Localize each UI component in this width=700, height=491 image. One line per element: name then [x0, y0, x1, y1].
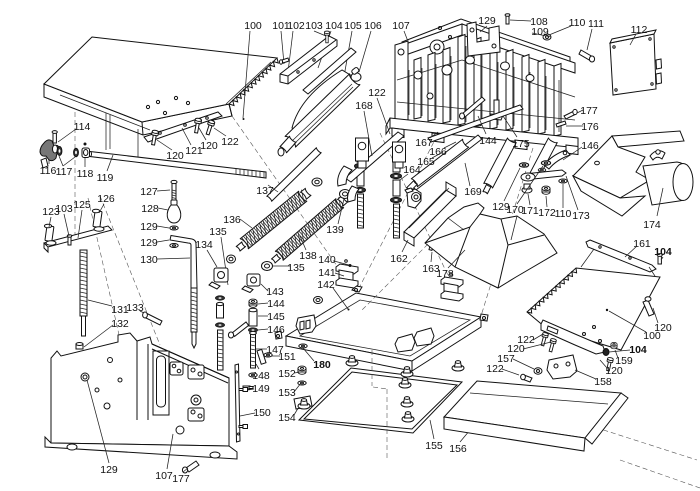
stud column 164 [393, 162, 400, 172]
screw 149b [243, 425, 248, 429]
pad stack at 407,398 [401, 401, 413, 407]
small parts above base [249, 373, 257, 377]
svg-text:150: 150 [253, 407, 271, 419]
washer 129c [519, 163, 528, 167]
svg-text:120: 120 [200, 140, 218, 152]
bolt 120 right [193, 118, 202, 134]
washer 139 [340, 190, 351, 199]
bolt 176 [556, 121, 566, 127]
curved guard behind roller [292, 70, 352, 134]
roller 169b [484, 138, 517, 189]
bolt 122 [205, 119, 216, 135]
pad stack at 304,400 [298, 403, 310, 409]
curved plates near 139 [338, 166, 352, 186]
motor bracket + motor 174 [612, 131, 684, 147]
infeed table 100 [44, 84, 232, 135]
svg-text:136: 136 [223, 214, 241, 226]
bracket bar 125 [44, 226, 112, 247]
svg-text:106: 106 [364, 20, 382, 32]
feet [67, 444, 77, 450]
slide rail 167 [428, 105, 523, 142]
bolt 177 bottom [186, 461, 199, 472]
cutterblock frame 107 [402, 19, 570, 64]
washer 135a [262, 262, 273, 271]
bar 161 [586, 240, 656, 272]
carriage plate 142 [286, 293, 481, 361]
screw 149a [243, 388, 248, 392]
svg-text:176: 176 [581, 121, 599, 133]
wire dash line right bottom phantom [588, 425, 700, 488]
roller 169a [411, 139, 469, 187]
svg-text:142: 142 [317, 279, 335, 291]
svg-text:117: 117 [56, 166, 73, 178]
svg-text:153: 153 [278, 387, 296, 399]
bolt 111 [579, 50, 593, 61]
screw 114 [53, 133, 56, 143]
rod 119 [90, 152, 266, 179]
nut 159 [611, 342, 617, 348]
svg-text:164: 164 [403, 164, 421, 176]
wire dash line bracket-to-base [88, 198, 122, 348]
svg-text:122: 122 [486, 363, 504, 375]
pad stack at 458,362 [452, 365, 464, 371]
screw 103 [324, 31, 329, 43]
feed spindle 136 [240, 191, 307, 249]
svg-text:110: 110 [569, 17, 586, 29]
outfeed table 100b [527, 268, 660, 350]
cam 171 [522, 187, 532, 193]
svg-text:111: 111 [588, 18, 604, 30]
slide rail 165 [412, 135, 482, 190]
lug ring on plate edge [314, 297, 323, 304]
washer 129a [170, 226, 178, 230]
washer 146 [248, 328, 257, 332]
svg-text:102: 102 [287, 20, 305, 32]
svg-text:118: 118 [77, 168, 94, 180]
table pan 155 [299, 368, 462, 433]
nut 132 [76, 344, 83, 349]
svg-text:128: 128 [141, 203, 159, 215]
screw 101 [282, 58, 289, 63]
svg-text:138: 138 [299, 250, 317, 262]
bolt 147 [251, 334, 256, 368]
svg-text:135: 135 [287, 262, 305, 274]
nut 118 [82, 148, 90, 158]
svg-text:116: 116 [40, 165, 57, 177]
screw 122c [522, 375, 532, 382]
wire dash line mid diagonal [380, 133, 455, 290]
support bar 104b [541, 320, 605, 354]
svg-text:143: 143 [266, 286, 284, 298]
ring washer 135b [227, 255, 236, 263]
svg-text:126: 126 [97, 193, 115, 205]
svg-text:110: 110 [555, 208, 572, 220]
svg-text:119: 119 [97, 172, 114, 184]
nut 151 [264, 353, 272, 357]
motor cylinder [643, 162, 692, 205]
svg-text:173: 173 [572, 210, 590, 222]
long bolt by column [232, 322, 249, 336]
svg-text:155: 155 [425, 440, 443, 452]
nut 109 [543, 34, 551, 40]
motor clamp [650, 151, 665, 160]
bearing block 134 [214, 268, 228, 282]
svg-text:174: 174 [643, 219, 661, 231]
svg-text:180: 180 [313, 359, 331, 371]
svg-text:103: 103 [305, 20, 323, 32]
dark screw 104c [603, 349, 609, 356]
svg-text:127: 127 [140, 186, 158, 198]
pad stack at 408,413 [402, 416, 414, 422]
svg-text:103: 103 [55, 203, 73, 215]
bolt 120 right low [605, 357, 613, 371]
top bracket 129 [467, 22, 500, 56]
svg-text:151: 151 [278, 351, 296, 363]
svg-text:130: 130 [140, 254, 158, 266]
svg-text:125: 125 [73, 199, 91, 211]
screw 157 [534, 368, 542, 374]
svg-text:122: 122 [221, 136, 239, 148]
base stand 107b [51, 333, 229, 446]
svg-text:156: 156 [449, 443, 467, 455]
svg-text:168: 168 [355, 100, 373, 112]
roller 105 [285, 74, 360, 148]
svg-text:146: 146 [267, 324, 285, 336]
screw 163 [429, 242, 434, 251]
svg-text:145: 145 [267, 311, 285, 323]
wire projection dash line frame-to-plate left [357, 128, 441, 292]
slot plate centre [153, 351, 169, 415]
tensioner bracket with pulley [407, 189, 421, 208]
clamp 154 [294, 396, 312, 409]
pin 123 left [45, 226, 54, 242]
cam lever 173 [524, 170, 566, 180]
flat bar 150 [235, 364, 240, 442]
svg-text:140: 140 [318, 254, 336, 266]
guard strip 104 [303, 48, 356, 94]
svg-text:177: 177 [172, 473, 190, 485]
washer stack column [215, 296, 224, 300]
knob 106 [351, 73, 361, 81]
hand knob 116 [40, 140, 59, 161]
washer 117a [57, 147, 62, 156]
clamp 180 at west corner [296, 315, 316, 334]
pin 126 right [93, 211, 102, 228]
chip chute 156 [444, 381, 621, 438]
rod 137 [267, 148, 322, 202]
ridge blocks [170, 362, 183, 375]
bolt 177b [564, 111, 576, 119]
washer mid [312, 178, 322, 186]
svg-text:135: 135 [209, 226, 227, 238]
svg-text:107: 107 [392, 20, 410, 32]
roller 175c [530, 138, 558, 179]
svg-text:152: 152 [278, 368, 296, 380]
svg-text:177: 177 [580, 105, 598, 117]
fence bar 102 [280, 36, 337, 84]
switch box 112 [610, 34, 656, 95]
svg-text:134: 134 [195, 239, 213, 251]
svg-text:139: 139 [326, 224, 344, 236]
pad stack at 405,379 [399, 382, 411, 388]
washer 170 [541, 161, 550, 165]
diagonal bolt 144 in frame [462, 97, 485, 117]
chip deflector plates 178 [425, 203, 557, 288]
clamp block right top [441, 277, 463, 287]
svg-text:144: 144 [479, 135, 497, 147]
bushing 145 [249, 310, 257, 326]
screw 103b [68, 237, 71, 245]
screw 133 [144, 313, 162, 325]
feed spindle 138 [275, 199, 344, 261]
svg-text:175: 175 [512, 138, 530, 150]
svg-text:104: 104 [325, 20, 343, 32]
guide channel 162 [404, 190, 456, 238]
svg-text:129: 129 [478, 15, 496, 27]
wire dash-dot centre line left [74, 112, 76, 235]
washer 129b [170, 244, 178, 248]
svg-text:129: 129 [100, 464, 118, 476]
svg-text:132: 132 [111, 318, 129, 330]
wire dash channel-to-plate [362, 244, 428, 310]
mounting strip 121 under table [144, 112, 222, 142]
svg-text:129: 129 [140, 221, 158, 233]
ridge bar double line [152, 349, 228, 383]
washers by arm [538, 168, 546, 172]
bolt 175 in frame [494, 100, 499, 114]
screw 149 [243, 386, 250, 389]
pin 148 [257, 349, 266, 364]
svg-text:154: 154 [278, 412, 296, 424]
pad 143 [247, 274, 260, 286]
svg-text:161: 161 [633, 238, 651, 250]
washer 153 [298, 381, 306, 385]
wire projection verticals under table [105, 113, 107, 150]
wire projection bar-to-plate [581, 249, 655, 276]
bolt 120 upper [643, 300, 654, 316]
inner plate (right side) [152, 344, 229, 378]
svg-text:137: 137 [256, 185, 274, 197]
pad stack at 407,368 [401, 371, 413, 377]
stud column mid [357, 152, 364, 162]
svg-text:171: 171 [521, 205, 539, 217]
nut 152 [298, 366, 306, 374]
svg-text:129: 129 [140, 237, 158, 249]
svg-text:149: 149 [252, 383, 270, 395]
svg-text:146: 146 [581, 140, 599, 152]
svg-text:141: 141 [318, 267, 336, 279]
washer 117b [74, 148, 79, 157]
pad stack at 352,357 [346, 360, 358, 366]
svg-text:133: 133 [126, 302, 144, 314]
washer 110b [559, 179, 567, 183]
svg-text:162: 162 [390, 253, 408, 265]
crank rod 130 [170, 236, 197, 289]
wire dash line pin-to-base [100, 196, 160, 345]
screws 120/122 left pair [540, 332, 549, 346]
screw 108 [506, 16, 509, 24]
nut 172 [542, 186, 550, 194]
svg-text:104: 104 [654, 246, 672, 258]
svg-text:158: 158 [594, 376, 612, 388]
nut 144 [249, 299, 257, 307]
mount arm 146 [544, 150, 570, 169]
wire projection dash line table-to-plate [232, 116, 356, 293]
svg-text:112: 112 [631, 24, 648, 36]
svg-text:107: 107 [155, 470, 173, 482]
svg-text:122: 122 [368, 87, 386, 99]
clamp block 141 on plate [336, 264, 358, 274]
screw 127 [172, 183, 176, 205]
bar 168 with blocks [345, 132, 404, 182]
screw 104r [658, 256, 661, 264]
wire projection dash line frame-to-plate right [481, 148, 533, 316]
bolt 120 left [150, 130, 159, 146]
svg-text:172: 172 [538, 207, 556, 219]
catch brackets on plate front [395, 334, 415, 352]
svg-text:144: 144 [267, 298, 285, 310]
threaded rod 131 [80, 250, 87, 316]
holes and details [81, 373, 89, 381]
svg-text:100: 100 [244, 20, 262, 32]
svg-text:105: 105 [344, 20, 362, 32]
bracket 158 [547, 355, 577, 379]
knob 128 [167, 204, 181, 223]
svg-text:169: 169 [464, 186, 482, 198]
svg-text:114: 114 [74, 121, 91, 133]
